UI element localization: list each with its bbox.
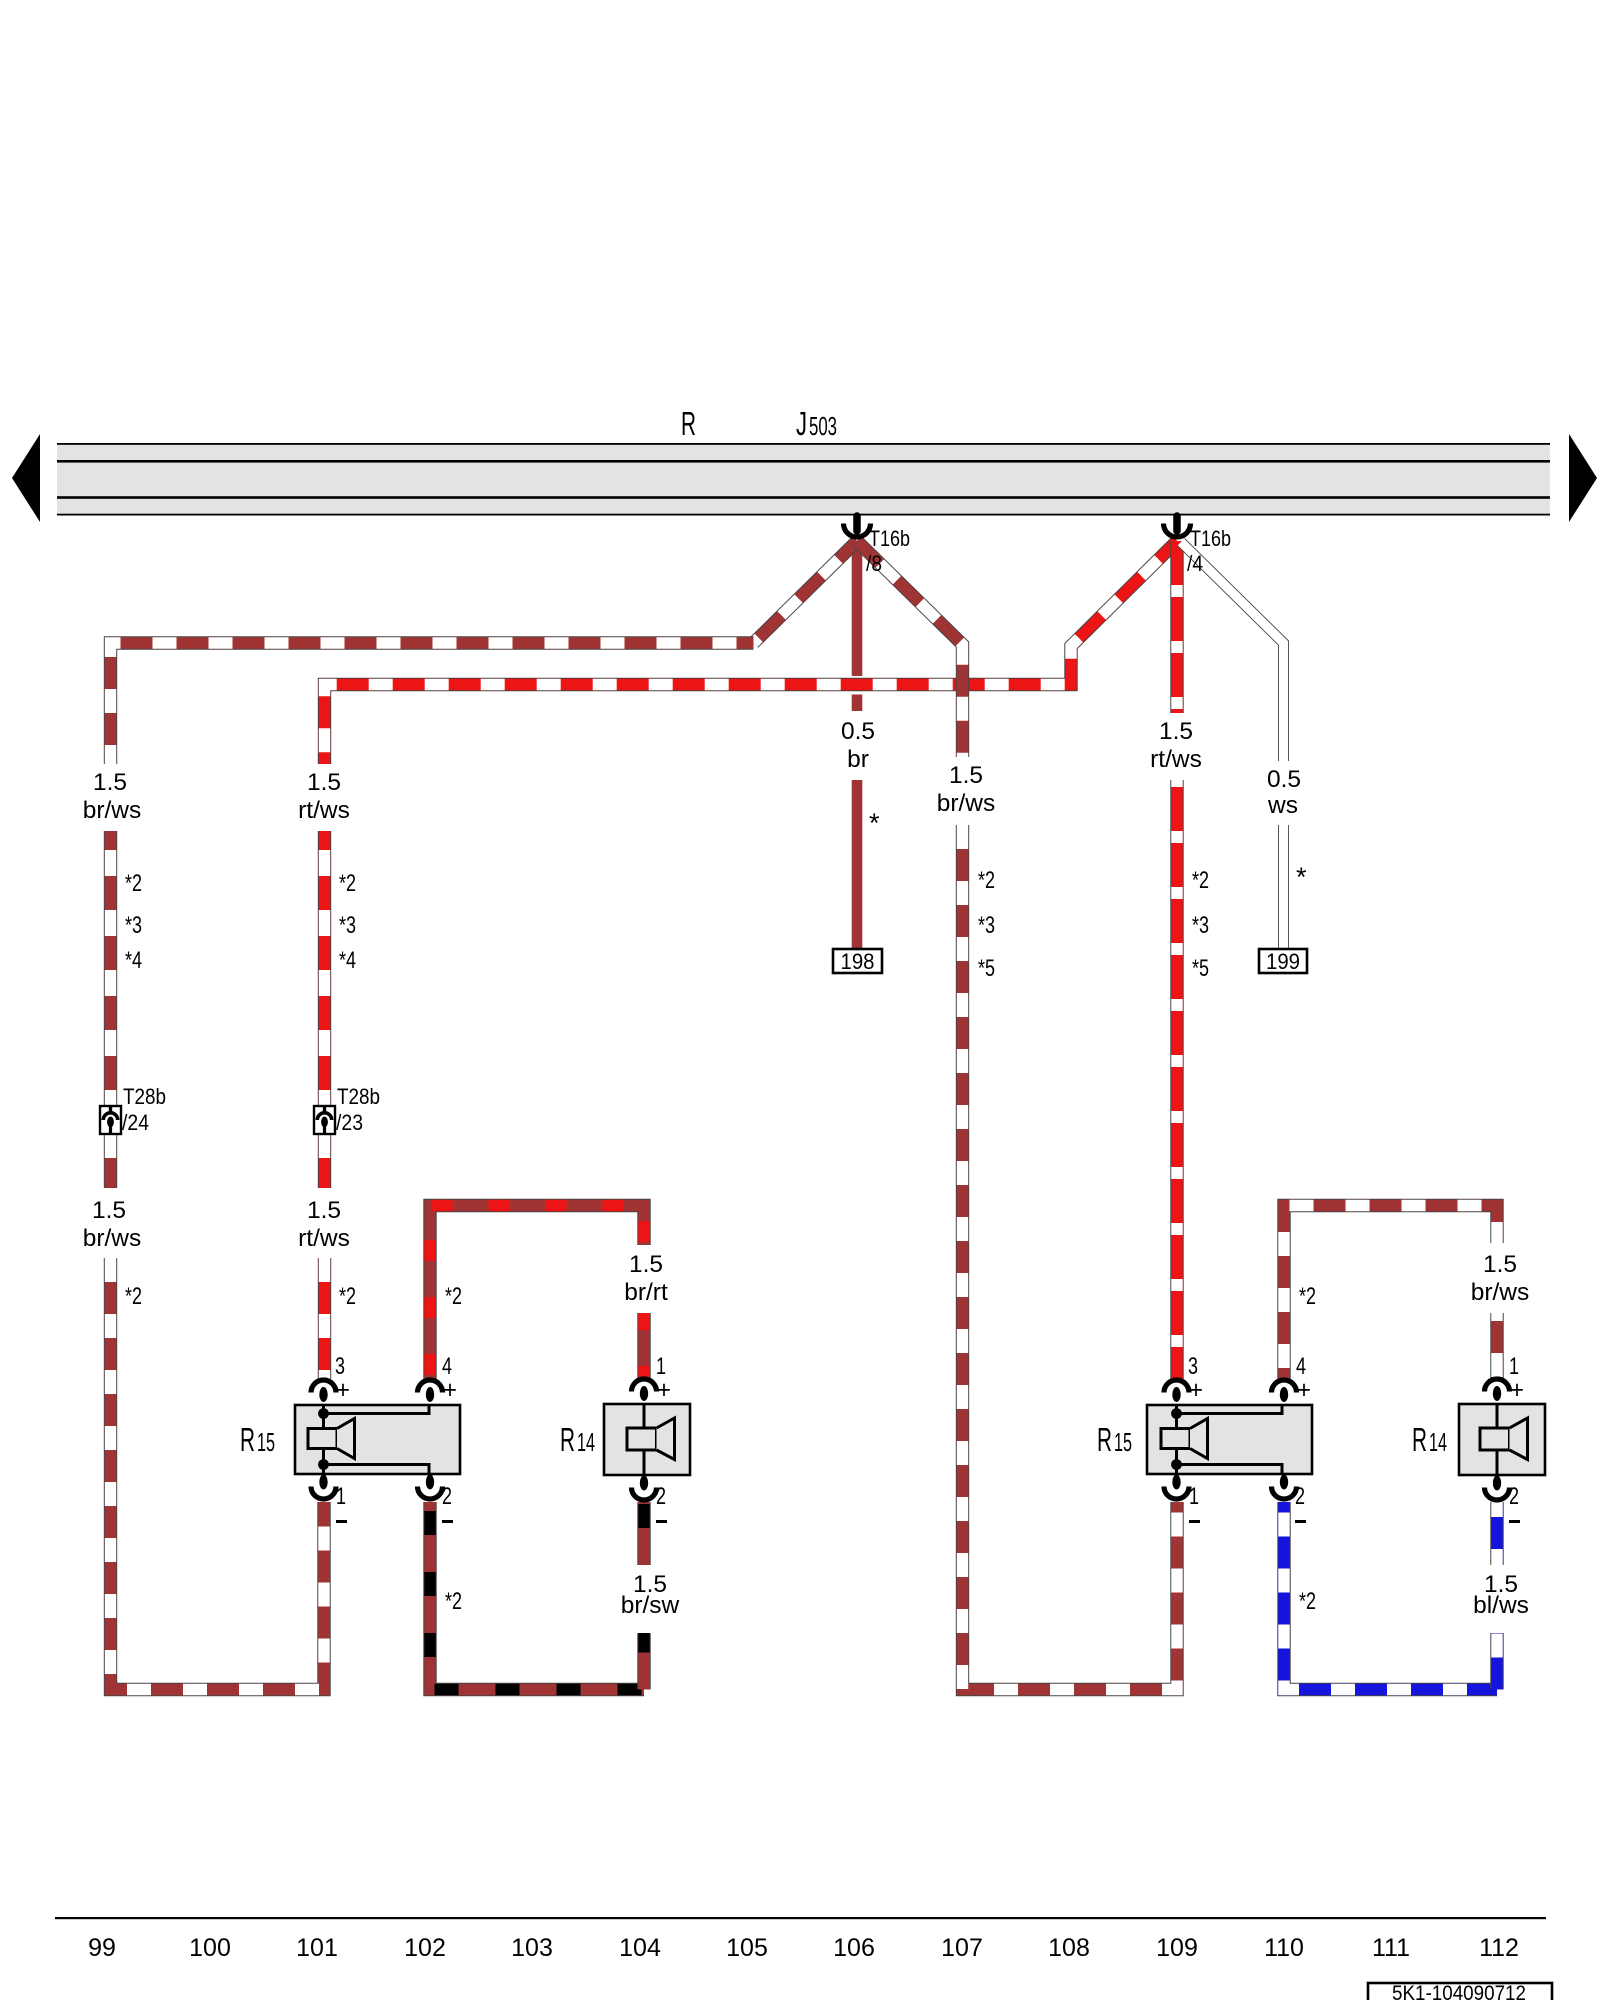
svg-text:1.5: 1.5 [1159,718,1193,745]
svg-text:*2: *2 [445,1588,462,1615]
svg-text:*5: *5 [1192,955,1209,982]
svg-text:1.5: 1.5 [307,1197,341,1224]
svg-text:R: R [560,1421,575,1458]
R15 right pin 3 [1164,1353,1203,1404]
R15 left pin 3 [311,1353,350,1404]
wire 1.5 br/ws R15 pin 4 to R14 pin 1 (right) [1284,1206,1497,1380]
wire 1.5 br/sw R15 pin 2 to R14 pin 2 (left) [430,1502,644,1690]
wire 1.5 br/ws T16b/8 to R15 pin 1 (left, via column 99) [111,541,858,1690]
wire 0.5 ws T16b/4 to node 199 (column 110) [1181,542,1284,949]
svg-text:/23: /23 [336,1110,363,1135]
wire 0.5 br from T16b/8 to node 198 [852,541,863,949]
svg-text:br/ws: br/ws [83,1225,142,1252]
svg-text:*2: *2 [125,870,142,897]
svg-text:14: 14 [577,1427,595,1457]
svg-text:102: 102 [404,1934,446,1962]
svg-text:*: * [1296,862,1307,892]
speaker R14 (left) [604,1404,690,1475]
svg-text:R: R [1097,1421,1112,1458]
svg-text:+: + [1297,1376,1311,1404]
svg-text:105: 105 [726,1934,768,1962]
bus bar R / J503 [57,443,1550,516]
svg-text:bl/ws: bl/ws [1473,1592,1529,1619]
svg-text:br/ws: br/ws [83,797,142,824]
svg-text:1.5: 1.5 [949,762,983,789]
R14 left pin 2 [632,1476,668,1524]
R15 right pin 1 [1164,1475,1200,1524]
svg-text:15: 15 [1114,1427,1132,1457]
svg-text:T28b: T28b [123,1084,166,1109]
svg-text:*3: *3 [125,912,142,939]
svg-text:T16b: T16b [869,526,910,551]
svg-text:+: + [336,1376,350,1404]
svg-text:101: 101 [296,1934,338,1962]
svg-text:107: 107 [941,1934,983,1962]
grid numbers 99-112 [88,1934,1519,1962]
svg-text:103: 103 [511,1934,553,1962]
wire 1.5 br/ws T16b/8 to R15 pin 1 (right, via column 107) [857,541,1177,1690]
svg-text:*2: *2 [1299,1283,1316,1310]
drawing number box 5K1-104090712 [1368,1982,1552,2000]
svg-text:*2: *2 [339,1283,356,1310]
svg-text:*2: *2 [445,1283,462,1310]
svg-text:106: 106 [833,1934,875,1962]
svg-text:*2: *2 [125,1283,142,1310]
connector T16b/8 at bus [844,516,911,576]
R15 left pin 1 [311,1475,347,1524]
connector T28b/23 (column 101) [314,1084,380,1135]
R14 right pin 1 [1485,1353,1525,1404]
svg-text:+: + [657,1376,671,1404]
svg-text:+: + [1189,1376,1203,1404]
svg-text:2: 2 [1295,1483,1305,1510]
svg-text:1.5: 1.5 [93,769,127,796]
node 199 box [1259,949,1307,974]
svg-text:*2: *2 [978,867,995,894]
svg-text:/4: /4 [1187,551,1203,576]
R15 left pin 2 [418,1475,454,1524]
svg-text:1.5: 1.5 [307,769,341,796]
svg-text:ws: ws [1267,792,1298,819]
svg-text:J: J [796,405,807,442]
R14 left pin 1 [632,1353,672,1404]
svg-text:rt/ws: rt/ws [298,797,350,824]
svg-text:104: 104 [619,1934,661,1962]
svg-text:108: 108 [1048,1934,1090,1962]
svg-text:*2: *2 [1192,867,1209,894]
svg-text:*2: *2 [1299,1588,1316,1615]
bus left arrow [12,434,40,522]
svg-text:/24: /24 [122,1110,149,1135]
svg-text:111: 111 [1372,1934,1410,1962]
speaker R14 (right) [1459,1404,1545,1475]
svg-text:br/rt: br/rt [624,1279,668,1306]
svg-text:15: 15 [257,1427,275,1457]
speaker R15 (left) [295,1405,460,1474]
svg-text:100: 100 [189,1934,231,1962]
svg-text:R: R [1412,1421,1427,1458]
svg-text:T28b: T28b [337,1084,380,1109]
svg-text:br/sw: br/sw [621,1592,680,1619]
svg-text:br: br [847,746,869,773]
svg-text:110: 110 [1264,1934,1304,1962]
svg-text:198: 198 [841,949,875,974]
svg-text:1: 1 [1189,1483,1199,1510]
svg-text:*4: *4 [339,947,356,974]
svg-text:1: 1 [336,1483,346,1510]
svg-text:*2: *2 [339,870,356,897]
node 198 box [833,949,882,974]
svg-text:R: R [240,1421,255,1458]
speaker R15 (right) [1147,1405,1312,1474]
svg-text:2: 2 [656,1483,666,1510]
wire 1.5 rt/ws T16b/4 to R15 pin 3 (right, column 109) [1176,541,1178,1379]
R15 right pin 2 [1272,1475,1307,1524]
connector T16b/4 at bus [1164,516,1232,576]
svg-text:0.5: 0.5 [1267,766,1301,793]
svg-text:*3: *3 [978,912,995,939]
svg-text:*5: *5 [978,955,995,982]
wire 1.5 bl/ws R15 pin 2 to R14 pin 2 (right) [1284,1502,1497,1690]
svg-text:1.5: 1.5 [629,1251,663,1278]
svg-text:0.5: 0.5 [841,718,875,745]
svg-text:14: 14 [1429,1427,1447,1457]
wire 1.5 rt/ws T16b/4 to R15 pin 3 (left, via column 101) [325,541,1178,1379]
svg-text:T16b: T16b [1190,526,1231,551]
svg-text:br/ws: br/ws [937,790,996,817]
bus right arrow [1569,434,1597,522]
svg-text:br/ws: br/ws [1471,1279,1530,1306]
svg-text:2: 2 [442,1483,452,1510]
svg-text:99: 99 [88,1934,116,1962]
svg-text:+: + [1510,1376,1524,1404]
svg-text:109: 109 [1156,1934,1198,1962]
wire 1.5 br/rt R15 pin 4 to R14 pin 1 (left) [430,1206,644,1380]
svg-text:2: 2 [1509,1483,1519,1510]
svg-text:*3: *3 [1192,912,1209,939]
svg-text:R: R [681,405,696,442]
bottom grid line [55,1917,1546,1919]
svg-text:/8: /8 [866,551,882,576]
svg-text:*: * [869,808,880,838]
svg-text:112: 112 [1479,1934,1519,1962]
R14 right pin 2 [1485,1476,1521,1524]
svg-text:5K1-104090712: 5K1-104090712 [1392,1982,1526,2000]
svg-text:1.5: 1.5 [92,1197,126,1224]
svg-text:rt/ws: rt/ws [1150,746,1202,773]
svg-text:199: 199 [1266,949,1300,974]
svg-text:*3: *3 [339,912,356,939]
svg-text:503: 503 [809,411,837,441]
svg-text:*4: *4 [125,947,142,974]
connector T28b/24 (column 99) [100,1084,166,1135]
R15 left pin 4 [418,1353,458,1404]
svg-text:+: + [443,1376,457,1404]
svg-text:rt/ws: rt/ws [298,1225,350,1252]
svg-text:1.5: 1.5 [1483,1251,1517,1278]
R15 right pin 4 [1272,1353,1312,1404]
